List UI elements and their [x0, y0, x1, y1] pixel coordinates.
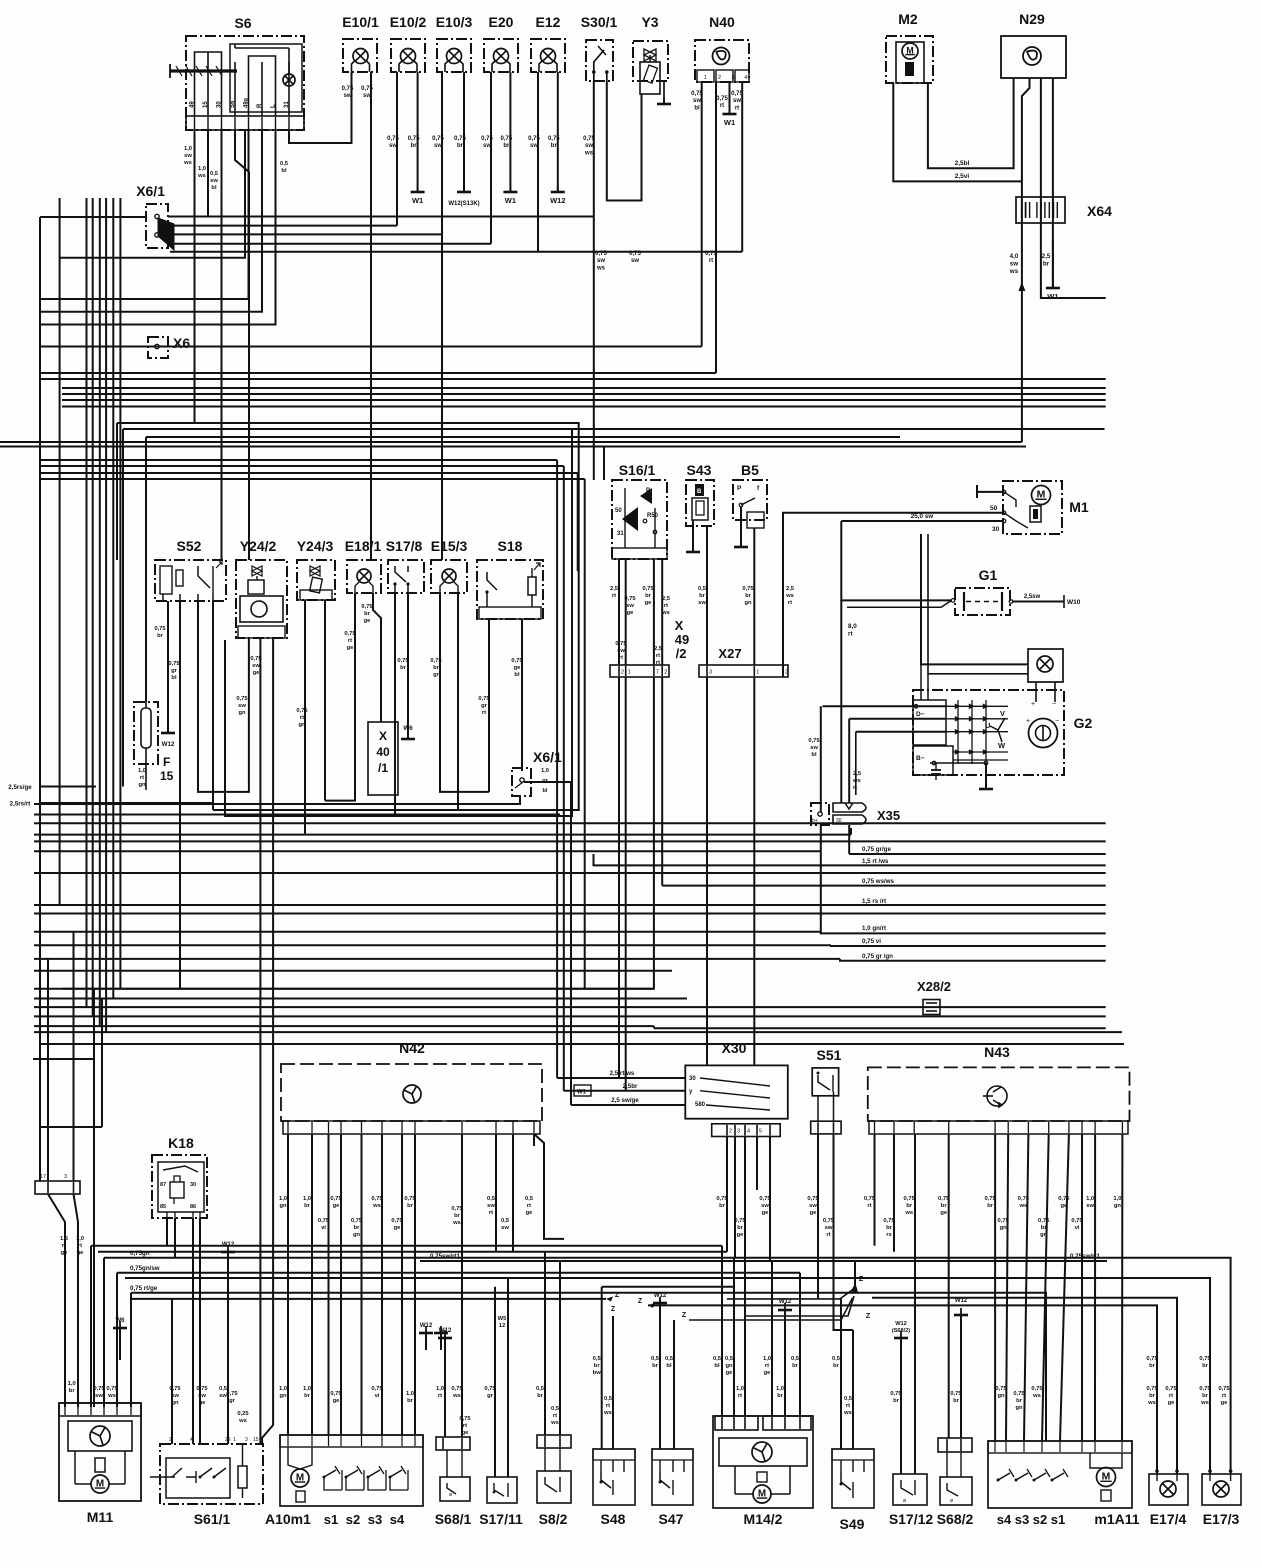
- wires N42 pins to A10m1: [287, 1134, 289, 1435]
- svg-text:X27: X27: [718, 646, 741, 661]
- svg-text:P: P: [737, 485, 742, 492]
- connector X35: [811, 803, 829, 825]
- svg-text:s3: s3: [368, 1512, 382, 1527]
- svg-text:1,5 rt /ws: 1,5 rt /ws: [862, 858, 889, 865]
- switch s3 contact in m1A11: [1016, 1473, 1028, 1480]
- svg-text:2,5rs/ge: 2,5rs/ge: [8, 784, 32, 791]
- svg-text:W1: W1: [1047, 292, 1058, 301]
- svg-text:S49: S49: [840, 1516, 865, 1532]
- svg-text:X28/2: X28/2: [917, 979, 951, 994]
- Y3 ground leg: [663, 81, 665, 103]
- W12 grounds right of K18: [419, 1326, 433, 1333]
- svg-text:ø: ø: [903, 1498, 906, 1504]
- wire S6-31 to E10/1: [289, 72, 352, 143]
- svg-text:S48: S48: [601, 1511, 626, 1527]
- S43 wire down to X27: [706, 526, 708, 665]
- svg-text:30: 30: [689, 1076, 696, 1082]
- svg-text:31: 31: [284, 101, 290, 108]
- switch S17/12: [893, 1474, 927, 1505]
- svg-text:Z: Z: [615, 1292, 620, 1299]
- wire S30/1 right U-turn to Y3: [607, 81, 642, 201]
- svg-text:+: +: [1026, 718, 1030, 725]
- svg-text:0,75gn: 0,75gn: [130, 1250, 150, 1257]
- switch S48: [593, 1449, 635, 1505]
- S6 internal sub-box: [230, 44, 302, 112]
- wire H834 full: [34, 834, 851, 836]
- svg-text:1,0br: 1,0br: [303, 1196, 311, 1209]
- W6 ground above M11: [113, 1321, 127, 1328]
- svg-text:2: 2: [621, 670, 624, 676]
- wire N42 pin 496 down: [495, 1134, 497, 1252]
- wire H479 to column: [40, 478, 585, 480]
- svg-text:R50: R50: [647, 513, 659, 519]
- wire S6 pin 30 down to S52: [221, 131, 223, 560]
- svg-text:W12: W12: [955, 1298, 968, 1304]
- switch s2 contact: [346, 1470, 358, 1477]
- wire X27 right pin up to M1 terminal 50: [783, 513, 1003, 677]
- svg-text:Y3: Y3: [641, 14, 658, 30]
- wire H1091 into X30 2,5br: [564, 1090, 686, 1092]
- svg-text:G2: G2: [1074, 715, 1093, 731]
- svg-text:5: 5: [759, 1129, 762, 1135]
- wire 25rs/ge label left edge: [40, 786, 96, 788]
- X35 left pin wire up: [820, 706, 822, 812]
- connector/switch S68/1: [436, 1437, 470, 1450]
- S16/1 wires to X49/2: [618, 559, 620, 665]
- svg-text:W12(S13K): W12(S13K): [448, 201, 479, 207]
- wire H851: [34, 850, 821, 852]
- switch s4 contact: [390, 1470, 402, 1477]
- svg-text:30: 30: [217, 101, 223, 108]
- wire H1105 into X30 2,5sw/ge: [571, 1104, 685, 1106]
- svg-text:B: B: [697, 489, 702, 495]
- wire 8.0 from 25,0sw down to G1/X35: [841, 521, 951, 600]
- relay K18: [152, 1155, 207, 1218]
- wire Z line 3: [689, 1298, 853, 1320]
- svg-text:B5: B5: [741, 462, 759, 478]
- wire H1026-H1028 jog: [653, 1026, 655, 1028]
- wire S48 feeds: [601, 1287, 603, 1449]
- lamp E10/1: [343, 39, 377, 72]
- wire H854 gr/ge: [849, 853, 1105, 855]
- wire E20 right to ground W1: [509, 72, 511, 191]
- connector X27: [699, 665, 788, 677]
- svg-text:W1: W1: [577, 1090, 587, 1096]
- wire E10/1 right leg down to E18/1: [370, 72, 372, 560]
- svg-text:X: X: [675, 618, 684, 633]
- wire Z splice stem to swrt line: [854, 1261, 856, 1285]
- svg-text:3: 3: [709, 670, 712, 676]
- S61/1 small resistor: [238, 1466, 247, 1488]
- valve Y24/3: [297, 560, 335, 600]
- wire 25rs/rt label left edge: [40, 802, 213, 804]
- svg-text:W1: W1: [412, 196, 423, 205]
- wire H1258 0,75gn to E17/3 right: [104, 1258, 1231, 1474]
- wire S6 pin 49 down: [194, 131, 196, 423]
- lamp E20: [484, 39, 518, 72]
- wire S68/2 feeds: [948, 1134, 950, 1438]
- svg-text:W10: W10: [1067, 599, 1081, 606]
- svg-text:85: 85: [160, 1204, 166, 1210]
- X6/1 fan wedge: [158, 218, 174, 250]
- lamp E10/3: [437, 39, 471, 72]
- svg-text:W1: W1: [505, 196, 516, 205]
- svg-text:s4: s4: [390, 1512, 405, 1527]
- wire H460 to column: [40, 459, 557, 461]
- G2 B- capacitor branch: [930, 762, 986, 764]
- wire S17/11 feeds: [494, 1287, 496, 1477]
- svg-text:ø: ø: [950, 1498, 953, 1504]
- S17/8 left wire down: [394, 593, 396, 816]
- svg-text:X: X: [379, 729, 387, 743]
- svg-text:−: −: [1052, 701, 1056, 708]
- svg-text:1: 1: [704, 75, 707, 81]
- wire H946 vi: [831, 944, 1106, 947]
- svg-text:S6: S6: [230, 100, 236, 108]
- Y24/3 wires down: [304, 600, 306, 834]
- wire H299 to S6 pin: [40, 131, 249, 299]
- svg-text:X35: X35: [877, 808, 900, 823]
- X35 right pin wires up: [848, 719, 850, 803]
- wire E20 left to fan: [490, 72, 492, 244]
- svg-text:Z: Z: [866, 1313, 871, 1320]
- wire E10/2 right to ground W1: [417, 72, 419, 191]
- svg-text:4: 4: [747, 1129, 750, 1135]
- svg-text:s3: s3: [1015, 1512, 1029, 1527]
- wire G1 to W10: [1012, 601, 1064, 603]
- svg-text:E17/4: E17/4: [1150, 1511, 1187, 1527]
- svg-text:R: R: [257, 103, 263, 108]
- control unit A10m1 with switches s1-s4: [280, 1435, 423, 1506]
- G2 charge indicator box: [1028, 649, 1063, 682]
- battery G1: [955, 588, 1010, 615]
- svg-text:W: W: [998, 741, 1006, 750]
- wire H905 full: [34, 904, 1106, 906]
- switch S30/1: [586, 40, 613, 81]
- svg-text:2,5 rt/ws: 2,5 rt/ws: [610, 1070, 635, 1077]
- svg-text:4,0swws: 4,0swws: [1009, 253, 1019, 275]
- svg-text:X6: X6: [173, 335, 190, 351]
- svg-text:s2: s2: [346, 1512, 360, 1527]
- wire fan line to E10/2: [166, 225, 397, 227]
- wire H373 to N40 pin2: [40, 372, 716, 374]
- control module N42: [281, 1064, 542, 1121]
- S17/8 right wire to ground W6: [407, 593, 409, 738]
- S18 right wire to X6/1 lower connector: [521, 619, 523, 771]
- svg-text:2,5bl: 2,5bl: [955, 160, 970, 167]
- svg-text:X64: X64: [1087, 203, 1112, 219]
- svg-text:M1: M1: [1069, 499, 1089, 515]
- G2 internal verticals: [920, 664, 922, 700]
- wire X6/1 lower to right: [524, 782, 571, 1105]
- svg-text:49: 49: [190, 101, 196, 108]
- lamp E15/3: [431, 560, 467, 593]
- svg-text:E17/3: E17/3: [1203, 1511, 1240, 1527]
- wire H437 to F15: [146, 436, 900, 438]
- G2 rotor circle: [1029, 719, 1058, 748]
- wire H1044 full width: [40, 1043, 1124, 1045]
- wire H400: [62, 399, 1106, 401]
- svg-text:ø: ø: [449, 1492, 452, 1498]
- wire bus H446 line: [0, 446, 1026, 448]
- svg-text:S43: S43: [687, 462, 712, 478]
- S52 wire down 3 U-link to Y24/2: [198, 601, 249, 792]
- pressure switch B5: [733, 480, 767, 520]
- wire fan line E12/N40: [170, 251, 742, 253]
- wire S8/2 feeds: [544, 1252, 546, 1435]
- svg-text:E10/1: E10/1: [342, 14, 379, 30]
- svg-text:W12: W12: [654, 1293, 667, 1299]
- svg-text:2: 2: [785, 670, 788, 676]
- wire H865 rt/ws: [594, 854, 1106, 865]
- wire H388: [62, 387, 1106, 389]
- wire H1016: [34, 1015, 1106, 1017]
- svg-text:G1: G1: [979, 567, 998, 583]
- svg-text:E18/1: E18/1: [345, 538, 382, 554]
- relay S43: [686, 480, 714, 526]
- svg-text:Z: Z: [859, 1276, 864, 1283]
- wire H394: [62, 393, 1106, 395]
- wire N29 pin4 through X64 to ground W1: [1052, 78, 1054, 287]
- N42 pin wires down: [287, 1134, 289, 1146]
- W12 ground above S61/1: [221, 1245, 235, 1252]
- wire S6 pin 49a down to Y24/2: [235, 131, 249, 560]
- wire N42 pin 513 down: [512, 1134, 514, 1252]
- svg-text:30: 30: [190, 1182, 196, 1188]
- solenoid valve Y3: [633, 41, 668, 81]
- E18/1 right wire to X40/1: [373, 593, 381, 722]
- wire S6 pin 15 down: [207, 131, 209, 217]
- svg-text:1,0gn: 1,0gn: [1113, 1196, 1121, 1209]
- svg-text:S17/11: S17/11: [479, 1511, 523, 1527]
- wire H1028 right: [654, 1027, 1106, 1029]
- svg-text:W12: W12: [779, 1299, 792, 1305]
- wire S61/1 extra feed from Z line: [171, 1299, 173, 1444]
- svg-text:E10/3: E10/3: [436, 14, 473, 30]
- svg-text:s4: s4: [997, 1512, 1012, 1527]
- wire S49 feeds: [840, 1299, 842, 1449]
- svg-text:X30: X30: [722, 1040, 747, 1056]
- wire H1298 right to E17/4 right: [872, 1298, 1177, 1474]
- S51 bottom connector: [811, 1121, 841, 1134]
- control module N29: [1001, 36, 1066, 78]
- wire H885 w/ws: [662, 885, 1105, 887]
- svg-text:1,5 rs /rt: 1,5 rs /rt: [862, 898, 886, 905]
- wire Z line 2: [745, 1296, 854, 1316]
- svg-text:2,5 sw/ge: 2,5 sw/ge: [611, 1097, 639, 1104]
- Y24/2 wires down to S61/1: [259, 638, 261, 1444]
- svg-text:+: +: [1031, 701, 1035, 708]
- svg-text:S51: S51: [817, 1047, 842, 1063]
- svg-text:M2: M2: [898, 11, 918, 27]
- switch s3 contact: [368, 1470, 380, 1477]
- wire G1 + slant: [847, 600, 952, 607]
- svg-text:S18: S18: [498, 538, 523, 554]
- wire N29 right pin: [1052, 240, 1054, 287]
- switch s2 contact in m1A11: [1034, 1473, 1046, 1480]
- control module N40: [695, 40, 749, 82]
- control unit m1A11: [988, 1441, 1132, 1508]
- E15/3 left wire U-link to S18: [440, 593, 489, 792]
- left lower verticals: [47, 959, 49, 1181]
- svg-text:S47: S47: [659, 1511, 684, 1527]
- wire 25,0sw to M1 terminal 30: [841, 520, 1004, 522]
- svg-text:B−: B−: [916, 755, 925, 762]
- wire H1252: [98, 1251, 727, 1253]
- svg-text:0,75gn/sw: 0,75gn/sw: [130, 1265, 160, 1272]
- wire E12 right to ground W12: [557, 72, 559, 191]
- wire H473 to column: [40, 472, 578, 474]
- wire vertical from H429 down left: [122, 429, 124, 787]
- svg-text:E20: E20: [489, 14, 514, 30]
- switch S17/11: [487, 1477, 517, 1503]
- svg-text:P: P: [646, 488, 650, 494]
- starter motor M1: [1003, 481, 1062, 534]
- svg-text:4: 4: [744, 75, 747, 81]
- G2 diode mesh: [946, 705, 1008, 707]
- switch s4 contact in m1A11: [998, 1473, 1010, 1480]
- wire N40 pin1 to left bus: [701, 82, 703, 347]
- svg-text:E15/3: E15/3: [431, 538, 468, 554]
- svg-text:2,5br: 2,5br: [623, 1083, 638, 1090]
- svg-text:1,0 gn/rt: 1,0 gn/rt: [862, 925, 886, 932]
- svg-text:Y24/3: Y24/3: [297, 538, 334, 554]
- wire N40 pin2 to left bus: [715, 82, 717, 373]
- wire H1299 with Z splice: [131, 1298, 606, 1300]
- svg-text:3: 3: [732, 75, 735, 81]
- svg-text:M14/2: M14/2: [744, 1511, 783, 1527]
- wire H379: [40, 378, 1106, 380]
- svg-text:W6: W6: [116, 1318, 126, 1324]
- svg-text:3: 3: [245, 1437, 248, 1443]
- wire H1293 0,75rt/ge: [131, 1293, 1046, 1441]
- svg-text:/1: /1: [378, 761, 388, 775]
- relay S16/1: [612, 480, 667, 559]
- connector X30: [685, 1065, 788, 1118]
- svg-text:2,5vi: 2,5vi: [955, 173, 970, 180]
- X35 wires down: [820, 825, 822, 933]
- svg-text:580: 580: [695, 1102, 706, 1108]
- svg-text:m1A11: m1A11: [1094, 1511, 1139, 1527]
- svg-text:Z: Z: [682, 1312, 687, 1319]
- wire bus H217 right of X6/1 to S30/1 column: [168, 216, 594, 218]
- svg-text:49: 49: [675, 632, 689, 647]
- svg-text:1: 1: [233, 1437, 236, 1443]
- wire H325 to S6 pin: [40, 131, 276, 325]
- wire M2 left 2,5vi: [893, 83, 1022, 181]
- wire S17/12 feeds: [900, 1338, 902, 1474]
- svg-text:s2: s2: [1033, 1512, 1047, 1527]
- S43 wire to ground: [692, 520, 694, 551]
- switch S8/2: [537, 1435, 571, 1448]
- svg-text:2: 2: [718, 75, 721, 81]
- svg-text:S52: S52: [177, 538, 202, 554]
- switch s1 contact in m1A11: [1052, 1473, 1064, 1480]
- svg-text:2,5sw: 2,5sw: [1024, 594, 1041, 600]
- wire H312 to S6 pin: [40, 131, 262, 312]
- lamp E10/2: [391, 39, 425, 72]
- wire H1127 left link: [40, 1126, 102, 1128]
- svg-text:2: 2: [664, 670, 667, 676]
- G2 capacitor: [935, 763, 937, 770]
- X35 plug symbols: [833, 803, 866, 824]
- blower motor M14/2: [713, 1416, 813, 1508]
- blower motor M11: [59, 1403, 141, 1501]
- svg-text:1: 1: [628, 670, 631, 676]
- lamp E18/1: [347, 560, 381, 593]
- svg-text:V: V: [1000, 709, 1005, 718]
- wire H1078 into X30 2,5rt/ws: [557, 1077, 685, 1079]
- wire H873: [34, 872, 1106, 874]
- svg-text:S16/1: S16/1: [619, 462, 656, 478]
- wire M1 to G2 top: [921, 534, 1028, 664]
- junction dots at E17 lamps: [1155, 1469, 1159, 1473]
- svg-text:15: 15: [253, 1437, 259, 1443]
- wire H1287: [602, 1286, 734, 1288]
- svg-text:1,0sw: 1,0sw: [1086, 1196, 1094, 1209]
- G2 D+ sub-box: [913, 700, 946, 745]
- svg-text:1,0br: 1,0br: [68, 1381, 76, 1394]
- svg-text:7: 7: [656, 670, 659, 676]
- G2 B- sub-box: [913, 746, 953, 775]
- svg-text:W12: W12: [162, 741, 175, 748]
- wire X49/2 pins down: [618, 677, 620, 1078]
- svg-text:15: 15: [203, 101, 209, 108]
- svg-text:Y24/2: Y24/2: [240, 538, 277, 554]
- svg-text:1,0gn: 1,0gn: [279, 1196, 287, 1209]
- wire H945: [34, 944, 831, 946]
- G2 ground: [985, 763, 987, 788]
- connector X49/2: [610, 665, 669, 677]
- svg-text:W6: W6: [403, 725, 413, 732]
- svg-text:1,0br: 1,0br: [303, 1386, 311, 1399]
- label box X40/1: [368, 722, 398, 795]
- wire H1261 0,75sw/rt: [420, 1260, 1107, 1262]
- wire H1278 to E17/3 left: [125, 1278, 1210, 1474]
- B5 wire down to X27: [753, 528, 755, 665]
- svg-text:/2: /2: [676, 646, 687, 661]
- svg-text:X6/1: X6/1: [136, 183, 165, 199]
- svg-text:0,75sw/rt1: 0,75sw/rt1: [430, 1253, 460, 1260]
- svg-text:S17/8: S17/8: [386, 538, 423, 554]
- M11 feeder connector: [35, 1181, 80, 1194]
- wire H442 from 4.0sw wire: [0, 441, 1022, 443]
- switch S52: [155, 560, 226, 601]
- wire loop outer: [117, 423, 579, 810]
- svg-text:1,0: 1,0: [541, 768, 549, 774]
- svg-text:W1: W1: [724, 118, 735, 127]
- svg-text:49a: 49a: [244, 97, 250, 108]
- svg-text:N40: N40: [709, 14, 735, 30]
- wire H466 to column: [40, 465, 564, 467]
- wires S51 pins down: [817, 1134, 819, 1299]
- svg-text:3: 3: [64, 1174, 67, 1180]
- motor M2: [886, 36, 933, 83]
- svg-text:2: 2: [729, 1129, 732, 1135]
- wire H804: [34, 796, 520, 804]
- svg-text:N43: N43: [984, 1044, 1010, 1060]
- wire X27 pin down to X30: [706, 677, 708, 1065]
- svg-text:D−: D−: [916, 711, 925, 718]
- svg-text:25,0 sw: 25,0 sw: [911, 513, 934, 520]
- wire H346 X6 line to N40 pin1: [40, 346, 702, 348]
- switch S49: [832, 1449, 874, 1508]
- svg-text:S61/1: S61/1: [194, 1511, 231, 1527]
- connector X6/1 (lower): [512, 768, 531, 796]
- G2 stator Y symbol: [990, 718, 1005, 730]
- svg-text:0,75 vi: 0,75 vi: [862, 938, 881, 945]
- wire H913 full: [34, 913, 1106, 915]
